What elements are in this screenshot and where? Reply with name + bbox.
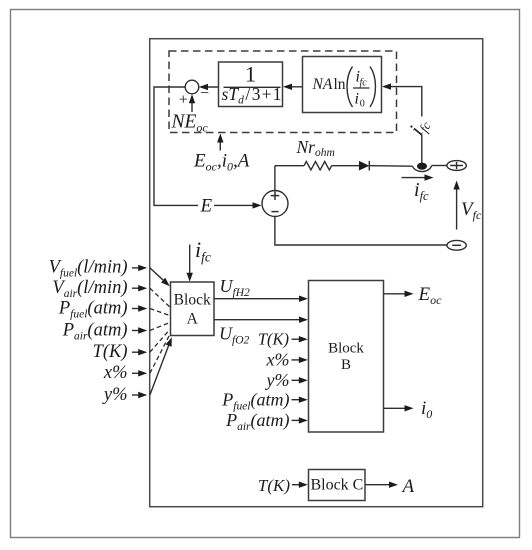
wire source bottom to minus terminal: [275, 217, 447, 245]
transfer-function block 1/(sTd/3+1): [219, 62, 283, 107]
svg-text:ifc: ifc: [414, 179, 429, 203]
svg-text:y%: y%: [265, 370, 290, 390]
block NAln(ifc/i0): [303, 57, 382, 113]
arrow y% input A: [132, 392, 147, 398]
Block C: [309, 470, 366, 501]
controlled voltage source E: [262, 191, 288, 217]
wire A output: [365, 482, 398, 488]
fan wire Pair to Block A dashed: [150, 323, 170, 331]
wire UfH2 Block A to Block B: [214, 296, 308, 302]
arrow ifc output current: [402, 174, 434, 180]
svg-text:Vair(l/min): Vair(l/min): [52, 278, 127, 300]
wire Eoc output: [384, 291, 414, 297]
svg-text:Vfc: Vfc: [461, 199, 482, 222]
svg-text:Pair(atm): Pair(atm): [225, 410, 289, 433]
arrow Pfuel input: [132, 305, 147, 311]
summing junction: [179, 80, 209, 108]
svg-text:Eoc: Eoc: [418, 284, 443, 307]
svg-text:Pfuel(atm): Pfuel(atm): [58, 298, 128, 320]
svg-text:y%: y%: [102, 385, 128, 405]
svg-text:x%: x%: [103, 363, 128, 383]
svg-text:A: A: [187, 311, 199, 328]
arrow y% into Block B: [292, 377, 308, 383]
fan wire Vfuel to Block A: [150, 268, 170, 286]
wire UfO2 Block A to Block B: [214, 317, 308, 323]
wire i0 output: [384, 405, 414, 411]
wire transfer block to summing junction: [199, 84, 219, 90]
svg-text:Block C: Block C: [310, 477, 363, 494]
svg-text:E: E: [200, 196, 213, 217]
svg-text:Block: Block: [174, 292, 211, 309]
svg-text:i0: i0: [421, 398, 432, 421]
svg-text:NA: NA: [312, 76, 333, 93]
arrow T(K) into Block B: [292, 336, 308, 342]
output terminal plus: [447, 161, 466, 171]
svg-text:ln: ln: [334, 76, 346, 93]
wire NAln block to transfer block: [283, 84, 303, 90]
resistor Nrohm: [275, 162, 359, 170]
fan wire x% to Block A dashed: [150, 335, 170, 374]
wire node to plus terminal: [432, 165, 447, 167]
svg-text:Nrohm: Nrohm: [296, 137, 335, 159]
inner diagram border: [150, 39, 483, 507]
svg-text:ifc: ifc: [404, 114, 434, 140]
svg-text:Eoc,i0,A: Eoc,i0,A: [193, 151, 250, 174]
svg-text:B: B: [341, 357, 351, 373]
svg-text:i: i: [355, 91, 359, 108]
dashed subsystem box: [169, 51, 397, 133]
diode: [359, 161, 413, 171]
arrow ifc into Block A: [187, 245, 193, 282]
svg-text:Pair(atm): Pair(atm): [62, 320, 128, 342]
svg-text:1: 1: [245, 62, 256, 87]
svg-text:fc: fc: [360, 78, 368, 89]
wire summing junction to E source: [154, 87, 198, 205]
arrow T(K) into Block C: [292, 482, 308, 488]
svg-text:Block: Block: [328, 340, 364, 356]
wire hop under node: [413, 166, 432, 172]
fan wire Vair to Block A dashed: [150, 288, 170, 307]
arrow T(K) input A: [132, 349, 147, 355]
feedback wire ifc to NAln block: [382, 83, 422, 165]
fan wire Pfuel to Block A dashed: [150, 309, 170, 316]
arrow x% input A: [132, 370, 147, 376]
svg-text:T(K): T(K): [93, 342, 128, 362]
arrow Vair input: [132, 285, 147, 291]
output terminal minus: [447, 240, 466, 250]
svg-text:ifc: ifc: [195, 237, 211, 265]
svg-text:NEoc: NEoc: [171, 112, 209, 135]
arrow Eoc,i0,A into dashed box: [217, 134, 223, 151]
arrow x% into Block B: [292, 357, 308, 363]
svg-text:UfH2: UfH2: [220, 276, 251, 299]
arrow Vfc: [453, 181, 459, 230]
arrow Vfuel input: [132, 265, 147, 271]
wire source top to resistor row: [274, 166, 276, 191]
Block B: [309, 281, 384, 433]
svg-text:UfO2: UfO2: [219, 324, 250, 347]
Block A: [171, 282, 215, 336]
svg-text:0: 0: [360, 99, 365, 110]
arrow Pair into Block B: [292, 417, 308, 423]
svg-text:A: A: [401, 476, 415, 497]
fan wire y% to Block A: [150, 337, 172, 395]
arrow NEoc into summing junction: [189, 94, 195, 112]
svg-text:+: +: [179, 91, 188, 108]
arrow Pair input: [132, 327, 147, 333]
fan wire TK to Block A dashed: [150, 330, 170, 353]
svg-text:T(K): T(K): [258, 329, 289, 348]
svg-text:Vfuel(l/min): Vfuel(l/min): [49, 258, 128, 280]
arrow E into source: [214, 202, 262, 208]
node junction dot: [417, 163, 427, 170]
svg-text:x%: x%: [266, 350, 290, 370]
svg-text:sTd/3+1: sTd/3+1: [222, 84, 282, 107]
arrow Pfuel into Block B: [292, 397, 308, 403]
svg-text:T(K): T(K): [258, 476, 290, 495]
